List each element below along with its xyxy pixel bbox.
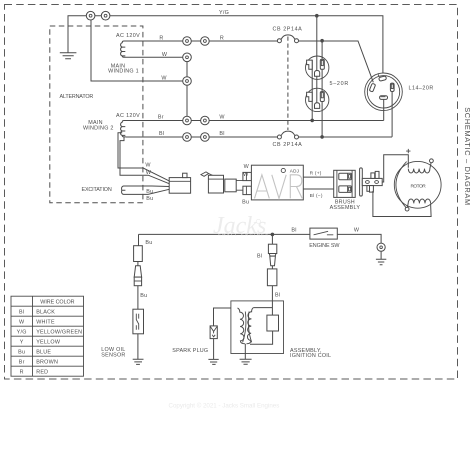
wire secondary top rail xyxy=(254,307,273,309)
L14 right slot xyxy=(390,83,394,91)
receptacle upper neutral slot xyxy=(307,60,313,69)
svg-text:AC 120V: AC 120V xyxy=(116,113,140,119)
connector bullet male (Bu) xyxy=(134,266,141,277)
svg-text:CB 2P14A: CB 2P14A xyxy=(273,26,303,32)
wire L14 neutral riser xyxy=(383,99,385,120)
ground (low oil sensor) xyxy=(133,359,144,364)
brush assembly housing xyxy=(334,170,356,197)
svg-text:BLACK: BLACK xyxy=(36,309,55,315)
svg-text:Y/G: Y/G xyxy=(17,329,27,335)
L14 top slot xyxy=(379,76,387,81)
circuit breaker CB2 contacts xyxy=(277,135,281,139)
junction dot hot2 column xyxy=(320,135,324,139)
svg-text:5–20R: 5–20R xyxy=(330,81,349,87)
excitation winding xyxy=(122,186,152,194)
rotor inner arc xyxy=(396,162,407,209)
receptacle 5-20R lower body xyxy=(306,88,329,111)
receptacle lower ground hole xyxy=(315,103,320,109)
ground (spark plug) xyxy=(208,359,218,364)
svg-text:ALTERNATOR: ALTERNATOR xyxy=(60,94,94,100)
rotor bottom coil xyxy=(407,199,430,207)
terminal Bl-2 xyxy=(201,133,210,142)
wire color table frame xyxy=(11,296,84,376)
ignition module xyxy=(267,315,279,331)
ground (alternator frame) xyxy=(60,53,77,59)
receptacle 5-20R upper body xyxy=(306,56,329,79)
svg-text:R (+): R (+) xyxy=(310,171,322,177)
wire between bullets xyxy=(137,262,139,266)
terminal Br-2 xyxy=(201,116,210,125)
svg-text:IGNITION COIL: IGNITION COIL xyxy=(290,353,331,359)
wire Bu drop to sensor xyxy=(138,234,140,245)
connector J2 (AVR plug) xyxy=(208,175,223,193)
svg-text:W: W xyxy=(244,164,250,170)
svg-text:R: R xyxy=(159,36,163,42)
ground (ignition coil) xyxy=(240,359,252,364)
junction dot hot drop xyxy=(320,39,324,43)
connector bullet female (Bu) xyxy=(134,246,143,262)
svg-text:W: W xyxy=(219,115,225,121)
svg-text:SMALL ENGINES: SMALL ENGINES xyxy=(218,232,270,237)
connector J3 bar (brush side) xyxy=(360,168,363,196)
wire receptacle neutral column xyxy=(311,60,313,120)
svg-text:WHITE: WHITE xyxy=(36,319,55,325)
wire neutral row to L14 xyxy=(126,120,384,122)
svg-text:Bu: Bu xyxy=(145,240,152,246)
main winding 1 coil xyxy=(121,41,126,57)
ground (engine chassis) xyxy=(376,251,386,264)
svg-text:AC 120V: AC 120V xyxy=(116,33,140,39)
wire engine stop rail xyxy=(139,234,382,243)
svg-text:Bu: Bu xyxy=(242,200,249,206)
terminal Bl-1 xyxy=(183,133,192,142)
receptacle upper hot slot xyxy=(320,59,324,69)
wire Bl row xyxy=(126,136,277,138)
svg-text:ASSEMBLY: ASSEMBLY xyxy=(330,205,361,211)
receptacle L14-20R outer xyxy=(365,73,403,111)
svg-text:YELLOW: YELLOW xyxy=(36,339,61,345)
wire Bl drop to ignition xyxy=(271,234,273,244)
terminal R-1 xyxy=(183,37,192,46)
page dashed border xyxy=(5,5,458,380)
svg-text:W: W xyxy=(243,172,249,178)
engine switch contacts xyxy=(314,231,334,235)
J3 top stubs xyxy=(371,173,375,179)
terminal chassis xyxy=(377,243,385,251)
J3 bottom stubs xyxy=(367,186,371,192)
wire Bu excitation 2 xyxy=(148,189,169,194)
receptacle lower hot slot xyxy=(320,92,324,102)
circuit breaker CB1 arc xyxy=(281,35,295,39)
svg-text:Bu: Bu xyxy=(140,293,147,299)
svg-text:Bl (−): Bl (−) xyxy=(310,193,323,199)
wire rotor + loop (top) xyxy=(382,155,408,182)
junction dot YG drop xyxy=(315,14,319,18)
AVR pin 2 xyxy=(243,186,252,194)
wire Y/G ground bus (top) xyxy=(68,16,383,73)
receptacle L14-20R inner ring xyxy=(367,76,399,108)
wire receptacle ground drop xyxy=(316,16,318,105)
svg-text:SCHEMATIC – DIAGRAM: SCHEMATIC – DIAGRAM xyxy=(463,107,472,205)
svg-text:R: R xyxy=(20,369,24,375)
brush upper xyxy=(339,173,352,180)
wire L14 hot2 riser xyxy=(299,91,393,137)
svg-text:Bu: Bu xyxy=(146,196,153,202)
wire J2 to AVR pins xyxy=(236,181,243,191)
svg-text:ADJ: ADJ xyxy=(290,169,299,174)
svg-text:SENSOR: SENSOR xyxy=(101,352,125,358)
svg-text:WINDING 2: WINDING 2 xyxy=(83,126,114,132)
rotor top coil xyxy=(408,162,431,174)
brush lower xyxy=(339,186,352,193)
connector J1 (alternator harness) xyxy=(169,178,190,194)
rotor body R1 xyxy=(394,161,441,208)
svg-text:Bl: Bl xyxy=(219,131,224,137)
svg-text:ROTOR: ROTOR xyxy=(410,183,426,189)
engine switch SW1 box xyxy=(310,228,337,239)
circuit breaker CB2 arc xyxy=(281,131,295,135)
svg-text:Br: Br xyxy=(158,115,164,121)
wire neutral bond from T1 down to W row xyxy=(91,20,187,81)
circuit breaker CB1 contacts xyxy=(277,39,281,43)
svg-text:YELLOW/GREEN: YELLOW/GREEN xyxy=(36,329,82,335)
wire sensor to ground xyxy=(137,334,139,360)
plus mark xyxy=(406,149,410,153)
svg-text:WINDING 1: WINDING 1 xyxy=(108,69,139,75)
svg-text:RED: RED xyxy=(36,369,48,375)
wire W sense 1 xyxy=(118,133,169,181)
AVR pin 1 xyxy=(243,172,252,180)
svg-text:W: W xyxy=(19,319,25,325)
ADJ trimmer xyxy=(281,168,285,172)
rotor slip ring dot (bottom) xyxy=(405,207,409,211)
J3 holes xyxy=(366,181,370,184)
svg-text:Y: Y xyxy=(20,339,24,345)
wire coil common to ground xyxy=(244,344,246,360)
terminal W-3 xyxy=(183,77,192,86)
svg-text:Copyright © 2021 - Jacks Small: Copyright © 2021 - Jacks Small Engines xyxy=(169,403,280,410)
rotor slip ring dot (top) xyxy=(430,159,434,163)
terminal T2 xyxy=(101,11,110,20)
table row lines xyxy=(11,306,84,366)
wire neutral tie vertical xyxy=(186,57,188,120)
svg-text:R: R xyxy=(220,36,224,42)
ignition coil primary xyxy=(238,308,245,344)
wire receptacle hot column xyxy=(321,41,323,137)
svg-text:CB 2P14A: CB 2P14A xyxy=(273,142,303,148)
svg-text:Bl: Bl xyxy=(257,253,262,259)
svg-text:W: W xyxy=(146,170,152,176)
svg-text:W: W xyxy=(145,162,151,168)
breaker tie bar (dashed) xyxy=(287,37,289,131)
L14 bottom slot xyxy=(380,96,388,100)
AVR big letters xyxy=(255,175,303,199)
spark plug P1 xyxy=(210,326,217,339)
low oil sensor S1 xyxy=(133,309,144,334)
svg-text:SPARK PLUG: SPARK PLUG xyxy=(172,348,208,354)
connector bullet male (Bl) xyxy=(268,244,276,253)
svg-text:Bl: Bl xyxy=(275,293,280,299)
wire R row (hot 1) xyxy=(126,41,373,82)
main winding 2 coil xyxy=(121,121,126,137)
svg-text:W: W xyxy=(354,228,360,234)
wire Bl (-) AVR to brush xyxy=(303,188,333,190)
alternator dashed box xyxy=(50,26,143,203)
ignition coil secondary xyxy=(247,308,254,344)
svg-text:Br: Br xyxy=(19,359,25,365)
svg-text:WIRE COLOR: WIRE COLOR xyxy=(40,299,75,305)
connector J3 body xyxy=(362,178,382,185)
svg-text:L14–20R: L14–20R xyxy=(409,86,434,92)
svg-text:Bu: Bu xyxy=(18,349,25,355)
L14 left slot xyxy=(369,83,375,92)
wire W row 1 xyxy=(126,56,187,58)
wire to spark plug xyxy=(214,308,231,326)
svg-text:EXCITATION: EXCITATION xyxy=(82,187,113,193)
connector J2 pigtail xyxy=(201,172,214,176)
wire plug to ground xyxy=(213,339,215,360)
svg-text:W: W xyxy=(162,52,168,58)
wire rotor - loop (bottom) xyxy=(373,191,431,217)
table column divider xyxy=(32,296,34,376)
svg-text:Bl: Bl xyxy=(291,227,296,233)
junction dot ignition tap xyxy=(271,233,275,237)
op-amp U1 AVR box xyxy=(251,165,303,200)
assembly ignition coil box xyxy=(231,301,284,354)
receptacle lower neutral slot xyxy=(307,92,313,101)
svg-text:ENGINE SW: ENGINE SW xyxy=(309,243,340,249)
wire Bu to sensor xyxy=(137,286,139,310)
terminal R-2 xyxy=(201,37,210,46)
connector bullet female (Bl) xyxy=(267,269,277,286)
terminal W-1 xyxy=(183,53,192,62)
terminal T1 xyxy=(86,11,95,20)
svg-text:W: W xyxy=(161,76,167,82)
wire module to coil bottom xyxy=(250,331,273,344)
wire bullet gap xyxy=(271,266,273,269)
svg-text:Bl: Bl xyxy=(159,131,164,137)
terminal Br-1 xyxy=(183,116,192,125)
svg-text:Bl: Bl xyxy=(19,309,24,315)
svg-text:Bu: Bu xyxy=(146,189,153,195)
wire Bl into coil box xyxy=(271,286,273,315)
junction dot neutral column xyxy=(310,119,314,123)
ignition coil core xyxy=(243,312,252,343)
wire R (+) AVR to brush xyxy=(303,176,333,178)
wire W sense 2 xyxy=(120,137,169,184)
wire Bu excitation 1 xyxy=(152,185,169,188)
svg-text:Y/G: Y/G xyxy=(219,10,229,16)
svg-text:BROWN: BROWN xyxy=(36,359,58,365)
svg-text:BLUE: BLUE xyxy=(36,349,51,355)
receptacle upper ground hole xyxy=(315,70,320,76)
